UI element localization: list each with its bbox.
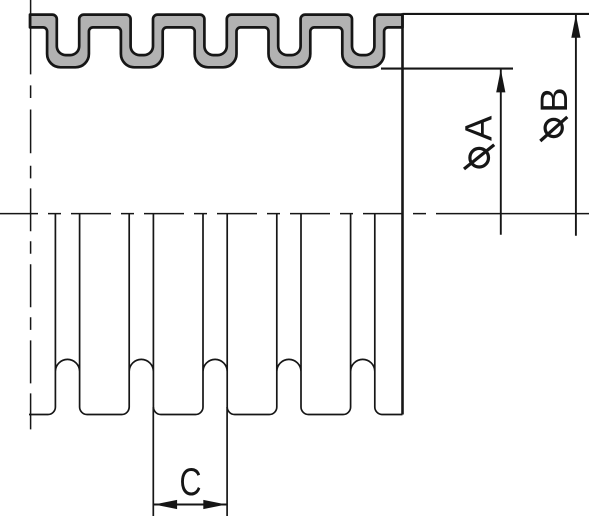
svg-text:C: C [180,460,202,503]
svg-text:A: A [459,115,501,141]
svg-text:B: B [534,87,576,112]
